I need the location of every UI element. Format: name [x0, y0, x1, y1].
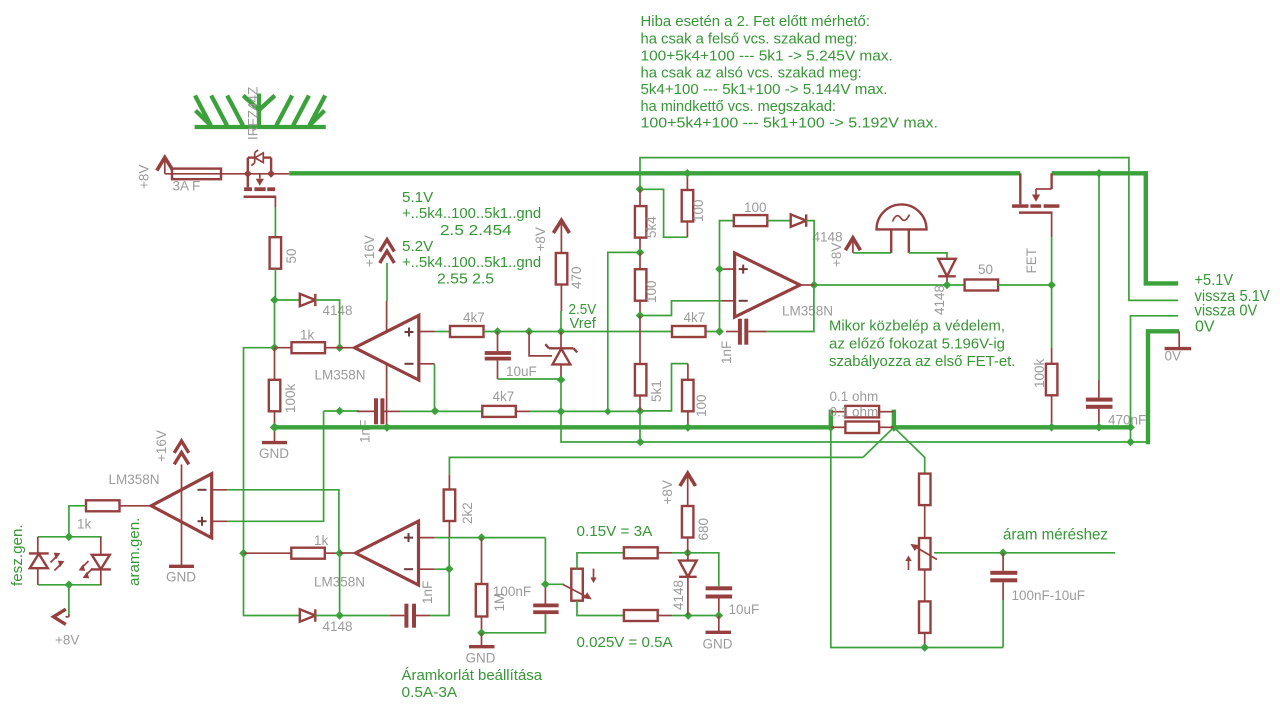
- op-amp U1A plus input stub: [419, 331, 435, 333]
- op-amp U2B plus stub: [419, 537, 450, 539]
- svg-text:+8V: +8V: [829, 243, 844, 267]
- op-amp U1A output stub: [340, 347, 355, 349]
- wire shunt right bar (thick): [892, 410, 896, 429]
- svg-text:100: 100: [744, 200, 767, 215]
- svg-text:4k7: 4k7: [463, 310, 485, 325]
- wire vissza 0V sense: [1131, 316, 1179, 442]
- wire down crossing GND bus to lower rail: [561, 411, 640, 442]
- svg-text:vissza 0V: vissza 0V: [1195, 303, 1258, 320]
- wire FET2 gate node up: [1051, 237, 1053, 285]
- resistor R20 (upper range): [624, 547, 672, 558]
- trimmer P2 (current measure): [905, 538, 937, 570]
- resistor R22 680: [682, 506, 694, 553]
- svg-text:+8V: +8V: [137, 165, 152, 189]
- wire node M jog to R8 bottom: [640, 189, 687, 237]
- svg-text:ha csak az alsó vcs. szakad me: ha csak az alsó vcs. szakad meg:: [641, 65, 862, 82]
- fuse F1 3A F: [165, 169, 248, 180]
- diode D7 4148 (vertical): [679, 553, 697, 616]
- svg-text:IRFZ44Z: IRFZ44Z: [246, 87, 261, 140]
- node T (947,285): [943, 281, 952, 290]
- op-amp U2A V+/V- pin: [181, 464, 183, 566]
- wire shunt left bar (thick): [829, 410, 833, 429]
- svg-text:1k: 1k: [314, 533, 329, 548]
- wire R1 to node: [274, 269, 276, 300]
- wire 0V terminal (thick): [1148, 331, 1179, 444]
- resistor R19 1M: [476, 538, 488, 633]
- op-amp U2A LM358N: [151, 474, 212, 538]
- power symbol +8V (lamp): [845, 238, 860, 253]
- node V (1051.6,427.2) on GND bus: [1047, 423, 1056, 432]
- node R (719.5,331.5): [715, 327, 724, 336]
- svg-text:10uF: 10uF: [729, 602, 760, 617]
- resistor R7 5k4: [635, 189, 647, 252]
- wire U2B plus node up through R18: [448, 538, 450, 569]
- svg-text:0.1 ohm: 0.1 ohm: [830, 389, 879, 404]
- svg-text:fesz.gen.: fesz.gen.: [9, 524, 26, 586]
- transistor Q2 FET: [1012, 173, 1059, 237]
- svg-text:1nF: 1nF: [358, 420, 373, 443]
- node AD (68.9,536.8): [65, 533, 74, 542]
- wire lower rail to 0V stub: [1131, 441, 1149, 443]
- wire node AK to trimmer wiper: [545, 583, 564, 585]
- svg-text:ha mindkettő vcs. megszakad:: ha mindkettő vcs. megszakad:: [641, 98, 837, 115]
- wire lamp right leg to D3: [909, 253, 947, 259]
- svg-text:LM358N: LM358N: [782, 304, 833, 319]
- node AJ (481.5,537.6) 1M top: [477, 533, 486, 542]
- node AA (274.5,427.3): [270, 423, 279, 432]
- svg-text:4148: 4148: [323, 303, 353, 318]
- wire GND bus (thick) left part: [275, 425, 831, 429]
- node X (1098.9,427.2) on GND bus: [1095, 423, 1104, 432]
- op-amp U2A plus input wire: [212, 411, 324, 521]
- svg-text:Vref: Vref: [570, 315, 597, 332]
- wire trimmer bottom rail: [577, 601, 624, 616]
- diode D1 4148: [300, 294, 316, 306]
- node O (640,252.4) divider mid: [636, 248, 645, 257]
- resistor R21 (lower range): [624, 610, 672, 621]
- svg-text:+8V: +8V: [533, 227, 548, 251]
- node B (339.6,347.7) op-amp1 output: [335, 343, 344, 352]
- node L (640,410.9) 5k1 bottom: [636, 407, 645, 416]
- svg-text:470: 470: [569, 266, 584, 289]
- heatsink KK1: [195, 94, 326, 128]
- wire trimmer top rail: [577, 553, 624, 569]
- resistor R24 0.1 ohm (lower): [831, 422, 894, 434]
- wire zener node down to Vref rail: [560, 380, 562, 412]
- svg-text:3A F: 3A F: [173, 179, 201, 194]
- wire C2 to node D: [400, 410, 435, 412]
- resistor R11 100 (to GND bus): [682, 364, 694, 428]
- wire +16V to U1A: [386, 263, 388, 301]
- svg-text:4148: 4148: [813, 230, 843, 245]
- node AS (924.7,647.5): [920, 643, 929, 652]
- wire node A to D1: [275, 299, 300, 301]
- svg-text:2k2: 2k2: [460, 502, 475, 524]
- svg-text:4148: 4148: [323, 619, 353, 634]
- svg-text:+16V: +16V: [362, 235, 377, 267]
- svg-text:GND: GND: [166, 570, 196, 585]
- svg-text:50: 50: [978, 262, 993, 277]
- svg-text:5k1: 5k1: [649, 380, 664, 402]
- wire D6 cathode to node AH: [315, 615, 339, 617]
- power symbol +8V (LED bridge, arrow left): [54, 609, 69, 624]
- wire R12 to D2: [767, 220, 790, 222]
- wire top sense line (before 2nd FET): [640, 158, 1178, 301]
- capacitor C2 1nF: [357, 398, 400, 424]
- wire C8 bottom to rail: [1002, 600, 1004, 648]
- lamp LA1: [877, 204, 927, 253]
- ground GND5 (0V): [1165, 331, 1192, 348]
- svg-text:FET: FET: [1024, 248, 1039, 274]
- node M (640,189.3) divider top: [636, 185, 645, 194]
- node B2 (339.6,411): [335, 407, 344, 416]
- svg-text:+..5k4..100..5k1..gnd: +..5k4..100..5k1..gnd: [402, 254, 541, 271]
- svg-text:100: 100: [691, 199, 706, 222]
- wire U2B output node down: [339, 553, 341, 615]
- node H (561,379.8): [557, 376, 566, 385]
- power symbol +8V (top left): [157, 157, 173, 173]
- node P (640,315.5): [636, 311, 645, 320]
- wire to R4: [435, 331, 451, 333]
- wire R5 to Vref row: [560, 311, 562, 332]
- svg-text:100nF: 100nF: [493, 584, 531, 599]
- svg-text:1k: 1k: [300, 328, 315, 343]
- wire diagonal sense left: [863, 427, 894, 457]
- wire +8V to lamp left leg: [853, 252, 891, 254]
- wire LED bottom rail: [38, 584, 102, 586]
- power symbol +16V (U2A): [174, 441, 189, 464]
- resistor R8 100 (upper right of divider): [682, 173, 694, 237]
- node A (274.5,300): [270, 296, 279, 305]
- node Q (719.5,269.1): [715, 265, 724, 274]
- wire divider tap vertical: [608, 252, 640, 411]
- wire R18 top corner to current sense row: [449, 457, 863, 474]
- op-amp U1B plus stub: [720, 268, 735, 270]
- svg-text:2.5 2.454: 2.5 2.454: [440, 222, 512, 239]
- resistor R25: [919, 474, 931, 506]
- wire R14 to FET2 gate node: [998, 284, 1052, 286]
- svg-text:100: 100: [644, 280, 659, 303]
- node Z (1130.5,442): [1126, 438, 1135, 447]
- svg-text:az előző fokozat 5.196V-ig: az előző fokozat 5.196V-ig: [829, 336, 1005, 353]
- op-amp U1A V+ pin: [386, 301, 388, 332]
- wire x=241.9 corner to D6: [244, 553, 300, 615]
- svg-text:+5.1V: +5.1V: [1195, 272, 1234, 289]
- svg-text:50: 50: [284, 248, 299, 263]
- ground GND1: [262, 427, 287, 442]
- ground GND2 (U2A): [169, 565, 194, 568]
- node C (274.5,347.7): [270, 343, 279, 352]
- svg-text:Hiba esetén a 2. Fet előtt mér: Hiba esetén a 2. Fet előtt mérhető:: [641, 13, 871, 30]
- svg-text:LM358N: LM358N: [109, 472, 160, 487]
- LED D4 (fesz.gen.): [29, 537, 65, 585]
- capacitor C5 1nF: [390, 604, 430, 628]
- op-amp U2B output stub: [340, 552, 356, 554]
- wire node A to node C: [274, 300, 276, 348]
- note: current limit setting: [402, 667, 543, 701]
- node S (814.1,285) U1B output: [810, 281, 819, 290]
- op-amp U2A output stub: [136, 505, 151, 507]
- op-amp U2B minus stub: [419, 568, 450, 570]
- op-amp U1B LM358N: [735, 253, 800, 317]
- node AN (688.2,615.5): [684, 611, 693, 620]
- svg-text:+8V: +8V: [55, 633, 79, 648]
- resistor R26: [919, 570, 931, 648]
- node AH (339.6,615.5): [335, 611, 344, 620]
- resistor R15 100k: [1046, 348, 1058, 427]
- wire D2 cathode down to U1B output: [806, 221, 814, 285]
- node AM (687.7,552.8): [683, 549, 692, 558]
- node AF (243.5,553.2) wait x=241.9 1k left: [239, 549, 248, 558]
- svg-text:1k: 1k: [77, 517, 92, 532]
- svg-text:+..5k4..100..5k1..gnd: +..5k4..100..5k1..gnd: [402, 205, 541, 222]
- op-amp U1B minus stub: [722, 300, 735, 302]
- node AI (449.2,568.9): [445, 565, 454, 574]
- node D (435,411): [431, 407, 440, 416]
- op-amp U2A minus input wire: [212, 490, 339, 553]
- wire +5.1V output (thick): [1146, 171, 1178, 283]
- svg-text:100+5k4+100 --- 5k1+100 -> 5: 100+5k4+100 --- 5k1+100 -> 5.192V max.: [641, 115, 939, 132]
- wire Q1 gate down: [274, 207, 276, 237]
- node AQ (893.9,427.4) shunt right: [890, 423, 899, 432]
- svg-text:680: 680: [696, 518, 711, 541]
- node AG (339.6,553.2) U2B output: [335, 549, 344, 558]
- node AK (545.4,584.3): [541, 580, 550, 589]
- svg-text:aram.gen.: aram.gen.: [126, 518, 143, 586]
- wire node AN to node AO: [688, 615, 719, 617]
- wire D1 cathode to feedback node: [315, 300, 339, 348]
- wire 1M bottom to C6 bottom: [482, 614, 546, 633]
- svg-text:100k: 100k: [1032, 358, 1047, 388]
- resistor R12 100 (U1B feedback): [734, 215, 768, 226]
- wire node I to 5k1 node: [561, 410, 640, 412]
- resistor R18 2k2: [444, 474, 456, 537]
- svg-text:+8V: +8V: [660, 480, 675, 504]
- svg-text:1nF: 1nF: [420, 581, 435, 604]
- ground GND3 (1M): [469, 633, 495, 647]
- node Y (1130.5,427.2) GND bus end: [1126, 423, 1135, 432]
- capacitor C7 10uF: [706, 586, 733, 615]
- wire node U down to R15: [1051, 285, 1053, 348]
- svg-text:0.15V = 3A: 0.15V = 3A: [577, 523, 654, 540]
- svg-text:0V: 0V: [1165, 349, 1182, 364]
- node E (497.5,331.5): [493, 327, 502, 336]
- node J (640.3,442): [636, 438, 645, 447]
- svg-text:10uF: 10uF: [506, 364, 537, 379]
- wire node D to R6: [435, 410, 482, 412]
- resistor R4 4k7: [450, 326, 484, 337]
- svg-text:LM358N: LM358N: [315, 368, 366, 383]
- svg-text:100+5k4+100 --- 5k1 -> 5.245: 100+5k4+100 --- 5k1 -> 5.245V max.: [641, 48, 893, 65]
- wire node AM to C7 corner: [688, 553, 719, 587]
- wire top bus right part: [1052, 171, 1146, 175]
- wire node W down to C4: [1098, 173, 1100, 380]
- node K (607.8,411.4) divider tap join: [604, 408, 612, 416]
- diode D6 4148: [300, 609, 316, 621]
- wire C1 bottom to zener node: [498, 378, 562, 380]
- note: protection behaviour: [829, 318, 1015, 371]
- resistor R5 470: [556, 253, 568, 311]
- capacitor C4 470nF: [1086, 380, 1113, 427]
- node AO (718.8,615.5): [715, 611, 724, 620]
- wire node C left and down to op-amp3 area: [244, 348, 275, 554]
- wire GND bus (thick) right part: [894, 425, 1131, 429]
- wire node P to op-amp2 minus: [640, 301, 722, 316]
- capacitor C8 100nF-10uF: [990, 553, 1017, 600]
- node W (1099,173.3) on top bus: [1095, 169, 1104, 178]
- wire P2 wiper tap: [934, 552, 1115, 554]
- transistor Q1 IRFZ44Z (P-FET with body zener): [244, 150, 290, 207]
- capacitor C1 10uF: [485, 332, 511, 380]
- diode D2 4148: [791, 214, 807, 226]
- svg-text:GND: GND: [703, 637, 733, 652]
- wire R16 left corner down to LED rail: [69, 506, 86, 537]
- svg-text:100nF-10uF: 100nF-10uF: [1012, 588, 1086, 603]
- resistor R23 0.1 ohm (upper): [831, 406, 894, 418]
- wire top bus (thick +V rail): [289, 171, 1020, 175]
- capacitor C6 100nF: [533, 538, 558, 633]
- wire node L down to node J: [639, 411, 641, 442]
- svg-text:+16V: +16V: [154, 430, 169, 462]
- wire diagonal from shunt right down to divider: [894, 427, 925, 473]
- power symbol +8V (470 feed): [553, 220, 569, 253]
- resistor R3 100k: [269, 348, 281, 428]
- wire LED top rail: [38, 536, 102, 538]
- node AL (481.5,632.8) 1M bottom: [477, 629, 486, 638]
- wire C5 right corner up to U2B minus: [430, 569, 449, 615]
- op-amp U1A LM358N: [355, 315, 419, 380]
- svg-text:5k4: 5k4: [644, 216, 659, 238]
- wire node AE down: [68, 585, 70, 614]
- node F (529.1,331.5): [525, 327, 534, 336]
- vref device U2 TL431 (2.5V): [529, 332, 577, 380]
- note: divider voltages block: [402, 189, 541, 288]
- node AR (1003.1,552.8): [999, 549, 1008, 558]
- wire sense bottom rail: [831, 429, 1003, 648]
- resistor R9 100 (divider lower): [635, 252, 647, 315]
- wire U1B output row: [814, 284, 965, 286]
- resistor R14 50: [965, 280, 999, 291]
- op-amp U1B output stub: [800, 284, 814, 286]
- wire feedback vertical x=719.5: [720, 221, 734, 332]
- wire R21 to node AN: [672, 615, 688, 617]
- LED D5 (aram.gen.): [79, 537, 111, 585]
- svg-text:5.1V: 5.1V: [402, 189, 434, 206]
- svg-text:4k7: 4k7: [493, 389, 515, 404]
- op-amp U2B LM358N: [356, 521, 419, 585]
- svg-text:GND: GND: [466, 651, 496, 666]
- resistor R16 1k: [86, 500, 136, 511]
- trimmer P1 (current limit): [563, 569, 597, 601]
- node G (561,331.5): [557, 327, 566, 336]
- resistor R13 4k7: [672, 326, 706, 337]
- wire R6 to node I: [530, 410, 561, 412]
- node AC (687.9,427.4) R11 junction: [684, 423, 693, 432]
- svg-text:0.1 ohm: 0.1 ohm: [830, 405, 879, 420]
- svg-text:1nF: 1nF: [719, 341, 734, 364]
- wire R20 to node AM: [672, 552, 688, 554]
- diode D3 4148 (vertical): [938, 259, 956, 285]
- node N (687.4,173.3) on top bus: [683, 169, 692, 178]
- note: top annotation block: [641, 13, 939, 132]
- wire Vref row: [484, 331, 673, 333]
- op-amp U1A minus input stub and wire down: [419, 364, 435, 411]
- capacitor C3 1nF (U1B comp): [726, 319, 767, 345]
- wire U2B plus row to R19/C6: [449, 537, 545, 539]
- svg-text:100: 100: [694, 394, 709, 417]
- resistor R10 5k1: [635, 316, 647, 411]
- wire lower rail right: [640, 441, 1131, 443]
- svg-text:ha csak a felső vcs. szakad me: ha csak a felső vcs. szakad meg:: [641, 31, 858, 48]
- svg-text:5k4+100 --- 5k1+100 -> 5.144V: 5k4+100 --- 5k1+100 -> 5.144V max.: [641, 81, 888, 98]
- wire C3 to U1B output corner: [767, 285, 814, 332]
- svg-text:100k: 100k: [283, 383, 298, 413]
- svg-text:áram méréshez: áram méréshez: [1003, 527, 1108, 544]
- svg-text:2.55 2.5: 2.55 2.5: [437, 271, 494, 288]
- svg-text:4k7: 4k7: [684, 310, 706, 325]
- svg-text:0.025V = 0.5A: 0.025V = 0.5A: [577, 634, 674, 651]
- node AB (386.9,427.4) U1A V- junction: [383, 423, 392, 432]
- resistor R1 50: [270, 237, 282, 269]
- op-amp U1A V- pin to GND bus: [386, 364, 388, 428]
- svg-text:5.2V: 5.2V: [402, 238, 434, 255]
- node U (1051.6,285): [1047, 281, 1056, 290]
- svg-text:4148: 4148: [932, 285, 947, 315]
- power symbol +8V (680 feed): [680, 473, 696, 506]
- svg-text:szabályozza az első FET-et.: szabályozza az első FET-et.: [829, 353, 1015, 370]
- wire corner at Vref row left: [324, 410, 340, 412]
- wire node AH to C5: [340, 615, 390, 617]
- wire R25 to P2: [924, 505, 926, 538]
- resistor R2 1k: [275, 342, 340, 353]
- ground GND4 (10uF): [706, 616, 732, 633]
- svg-text:0V: 0V: [1195, 318, 1215, 335]
- wire node L right and up to R10: [640, 364, 688, 411]
- svg-text:Áramkorlát beállítása: Áramkorlát beállítása: [402, 667, 543, 684]
- node I (561,411.4): [557, 407, 566, 416]
- resistor R6 4k7: [482, 406, 530, 417]
- resistor R17 1k: [244, 548, 340, 559]
- svg-text:GND: GND: [259, 446, 289, 461]
- svg-text:Mikor közbelép a védelem,: Mikor közbelép a védelem,: [829, 318, 1005, 335]
- power symbol +16V (U1A): [380, 240, 395, 263]
- wire 4k7 R13 row: [706, 331, 720, 333]
- svg-text:4148: 4148: [671, 580, 686, 610]
- node AP (830.8,427.4) shunt left: [827, 423, 836, 432]
- node AE (68.9,584.8): [65, 581, 74, 590]
- svg-text:0.5A-3A: 0.5A-3A: [402, 684, 459, 701]
- wire Vref row mid: 1nF node to op-amp1 area: [340, 410, 359, 412]
